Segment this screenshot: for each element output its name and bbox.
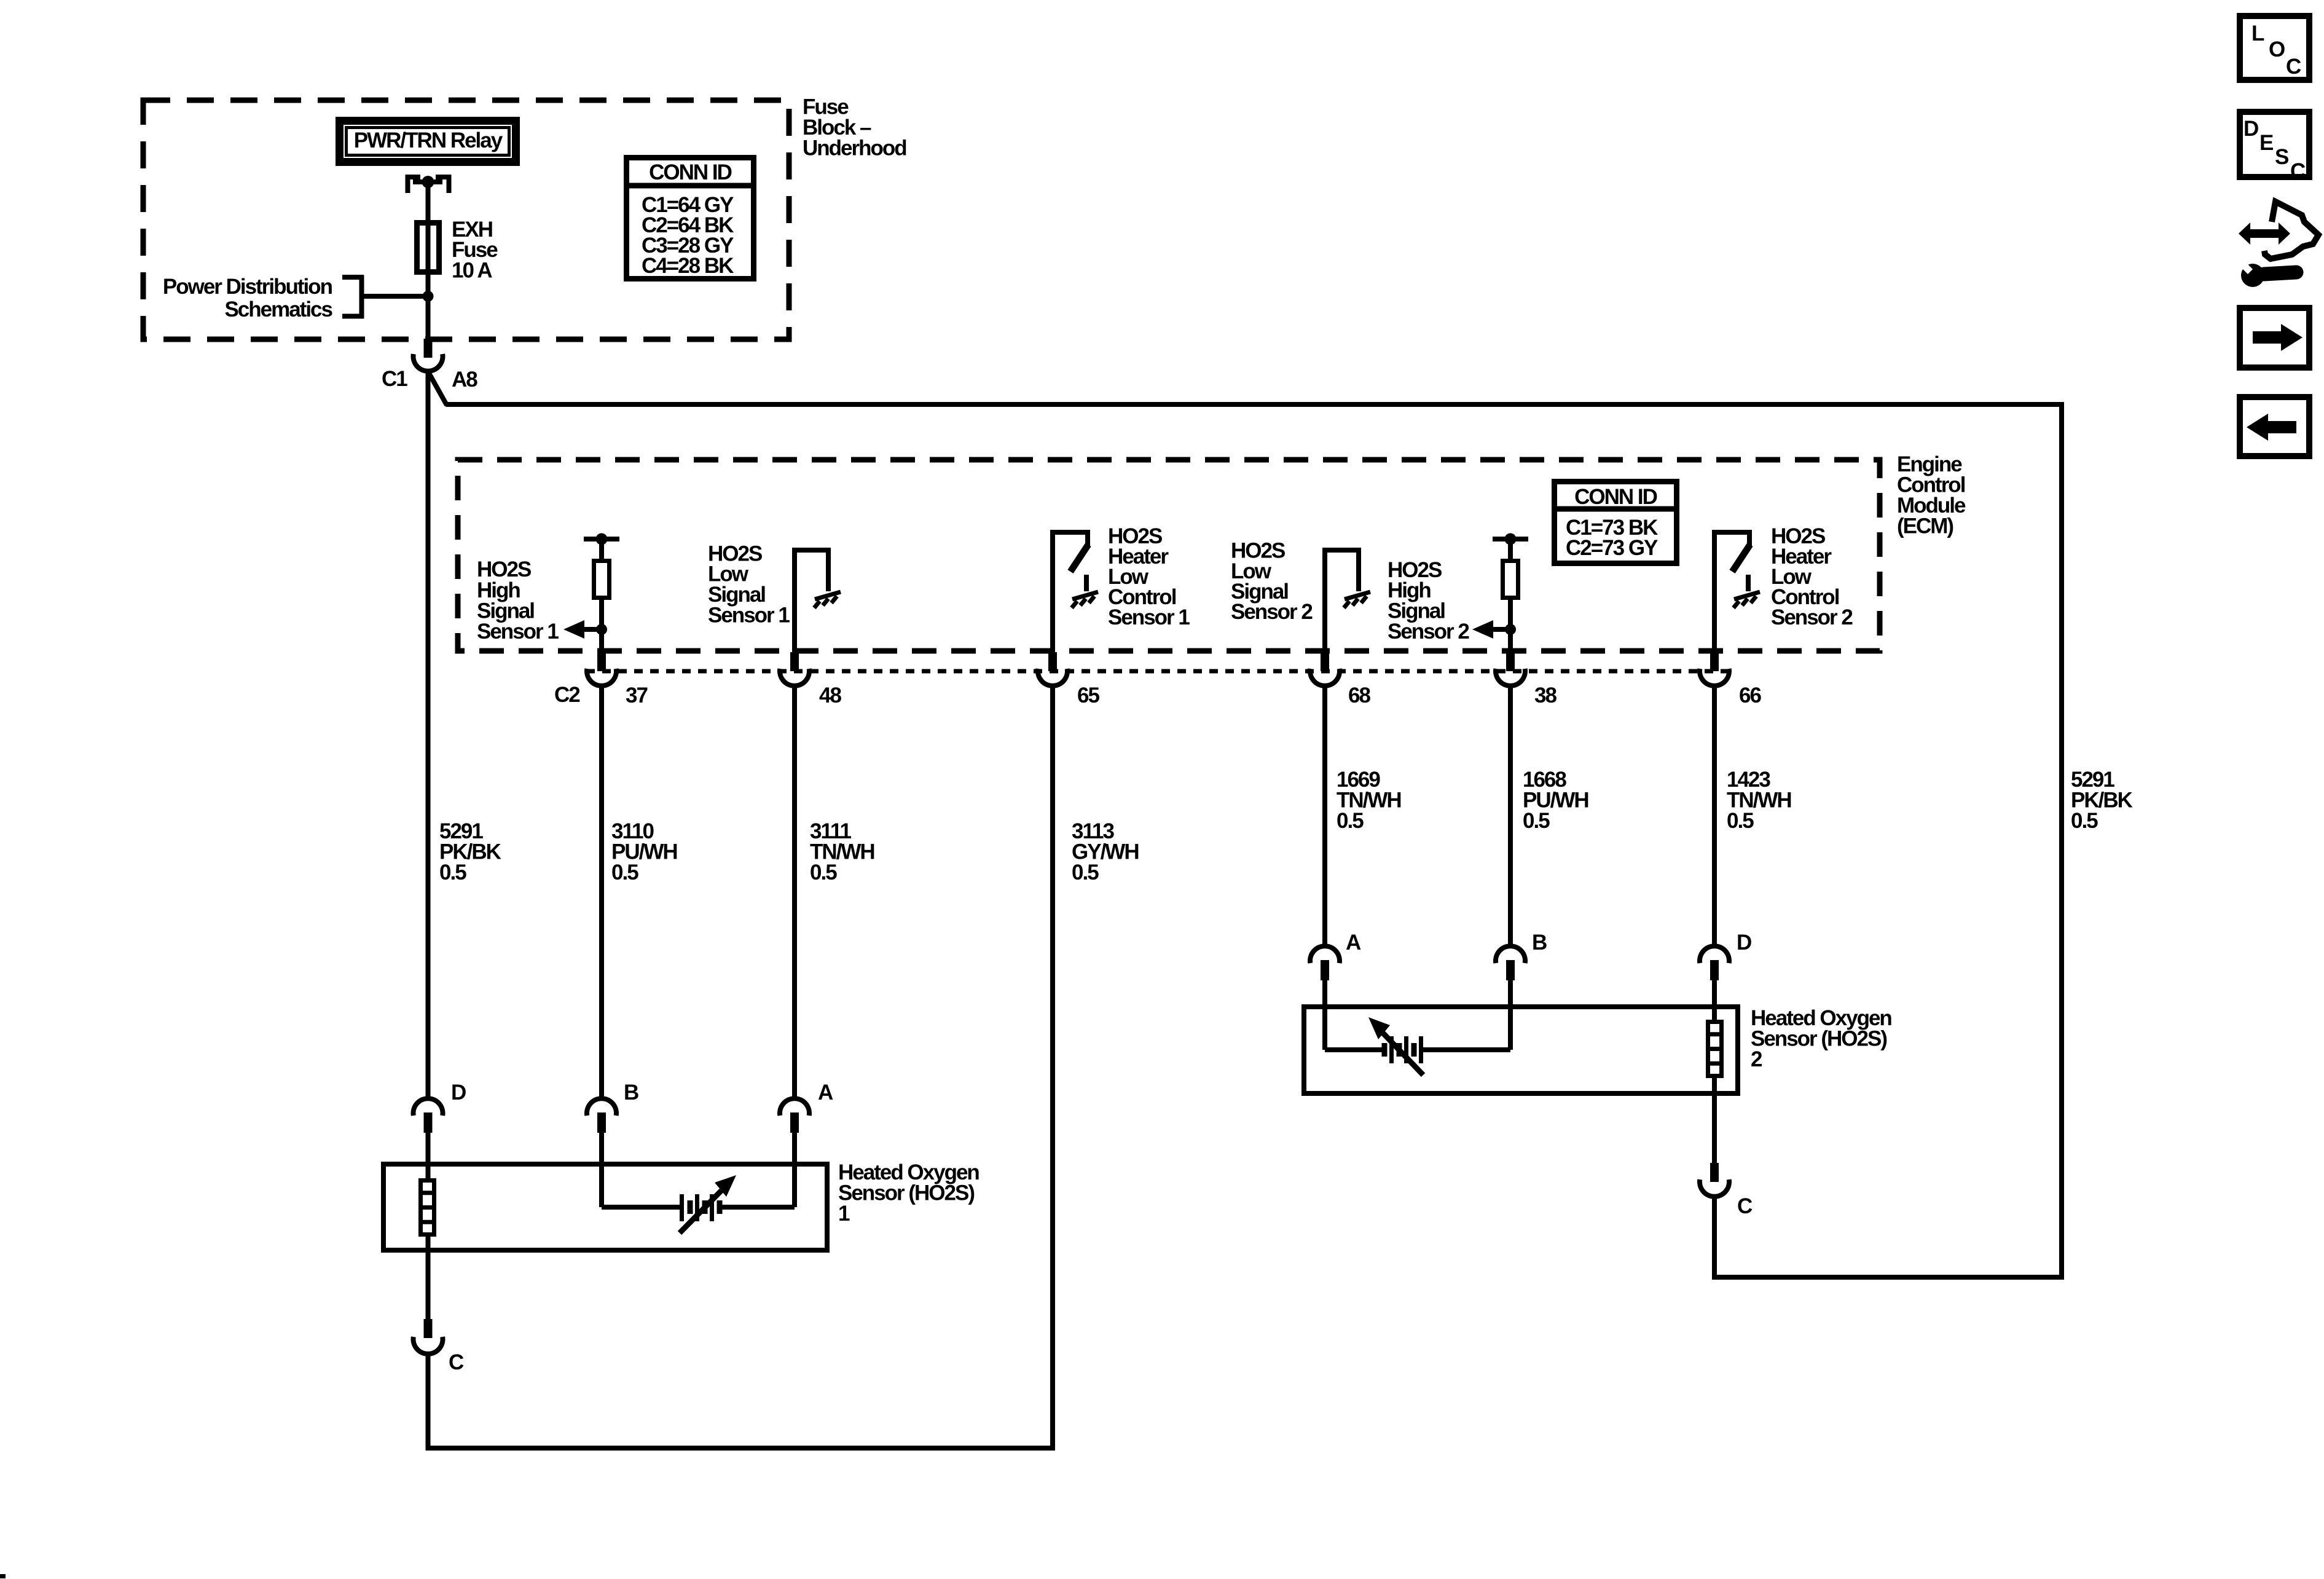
svg-text:0.5: 0.5 <box>1523 809 1550 833</box>
ECM internal: ground leg for pin 68 <box>1322 548 1361 652</box>
sidebar icon: back arrow box <box>2240 397 2309 456</box>
svg-text:D: D <box>2244 117 2258 141</box>
sensing cell: variable battery (HO2S2) <box>1325 1017 1510 1075</box>
connector pin B (HO2S2) <box>1496 931 1547 980</box>
connector pin D (HO2S1) <box>414 1081 466 1133</box>
svg-text:C2: C2 <box>554 683 580 707</box>
CONN ID table (fuse block) <box>624 158 756 279</box>
svg-text:48: 48 <box>819 683 841 707</box>
svg-text:0.5: 0.5 <box>1072 860 1099 884</box>
HO2S1 box: Heated Oxygen Sensor 1 <box>383 1164 827 1250</box>
svg-text:C2=73 GY: C2=73 GY <box>1566 536 1658 560</box>
svg-text:65: 65 <box>1077 683 1099 707</box>
svg-text:38: 38 <box>1534 683 1557 707</box>
chassis ground (pin 68 leg) <box>1344 592 1370 608</box>
label HO2S Low Signal Sensor 2 <box>1231 539 1313 624</box>
wire: HO2S2 heater to pin C <box>1712 1078 1717 1163</box>
connector pin C (HO2S1) <box>414 1319 464 1374</box>
label Heated Oxygen Sensor (HO2S) 1 <box>838 1160 979 1226</box>
svg-text:Underhood: Underhood <box>803 136 906 160</box>
sidebar icon LOC box <box>2240 16 2309 80</box>
sidebar icon DESC box <box>2240 112 2309 183</box>
svg-text:CONN ID: CONN ID <box>649 160 732 184</box>
label HO2S High Signal Sensor 1 <box>477 557 559 644</box>
svg-text:0.5: 0.5 <box>2071 809 2098 833</box>
svg-text:S: S <box>2275 145 2288 169</box>
svg-text:A: A <box>818 1081 833 1105</box>
svg-text:A8: A8 <box>452 368 477 392</box>
fuse F: EXH Fuse 10 A <box>417 223 439 272</box>
ECM connector row C2 dotted line <box>586 669 1728 674</box>
relay contact symbol <box>406 175 452 193</box>
wire: bottom right horizontal to HO2S 2 pin C <box>1714 1275 2064 1280</box>
wire: HO2S2 C down to bottom right run <box>1712 1196 1717 1280</box>
wires: HO2S1 pin stubs into box <box>426 1133 431 1178</box>
svg-text:Schematics: Schematics <box>224 297 332 321</box>
wires: HO2S2 pin stubs into box <box>1322 980 1327 1050</box>
svg-text:D: D <box>451 1081 466 1105</box>
chassis ground (pin 66 driver) <box>1733 592 1760 608</box>
ECM internal: driver switch to ground for pin 65 <box>1050 530 1090 652</box>
wire: right vertical feed (5291 PK/BK) <box>2059 402 2064 1280</box>
connector pin 68 <box>1310 652 1340 686</box>
svg-text:Sensor (HO2S): Sensor (HO2S) <box>838 1181 974 1205</box>
page speck bottom left <box>0 1574 6 1578</box>
svg-text:1: 1 <box>838 1202 850 1226</box>
HO2S2 box: Heated Oxygen Sensor 2 <box>1304 1007 1738 1093</box>
wire: A8 diagonal to top horizontal run <box>429 373 447 405</box>
wrench <box>2264 272 2296 274</box>
connector pin A (HO2S2) <box>1310 931 1361 980</box>
chassis ground (pin 65 driver) <box>1072 592 1098 608</box>
wire: top horizontal feed to right side <box>446 402 2062 407</box>
label Power Distribution Schematics with bracket <box>163 275 430 321</box>
double arrow <box>2239 222 2290 245</box>
svg-text:0.5: 0.5 <box>1727 809 1754 833</box>
svg-text:C: C <box>449 1350 464 1374</box>
svg-text:A: A <box>1346 931 1361 955</box>
svg-text:(ECM): (ECM) <box>1897 514 1953 538</box>
connector pin C (HO2S2) <box>1700 1163 1753 1218</box>
sensing cell: variable battery (HO2S1) <box>602 1175 795 1233</box>
ECM internal: driver switch to ground for pin 66 <box>1712 530 1752 652</box>
connector pin D (HO2S2) <box>1700 931 1751 980</box>
svg-text:37: 37 <box>626 683 647 707</box>
ECM internal: pull-up rail + resistor + signal arrow for pin 37 <box>563 534 619 653</box>
wire 1668 PU/WH (pin 38 to HO2S2 B) <box>1508 686 1513 947</box>
wire: HO2S1 heater to pin C <box>426 1237 431 1319</box>
schematic outline <box>2264 202 2318 259</box>
connector pin 37 (ECM C2) <box>587 652 616 686</box>
svg-text:E: E <box>2259 131 2273 155</box>
label wire 5291 PK/BK 0.5 (right) <box>2071 768 2133 833</box>
wire 1423 TN/WH (pin 66 to HO2S2 D) <box>1712 686 1717 947</box>
wire 1669 TN/WH (pin 68 to HO2S2 A) <box>1322 686 1327 947</box>
label HO2S Heater Low Control Sensor 2 <box>1771 524 1853 629</box>
svg-text:0.5: 0.5 <box>611 860 638 884</box>
svg-text:66: 66 <box>1739 683 1761 707</box>
sidebar icon: schematic navigation (double arrow, outline, wrench) <box>2236 202 2318 287</box>
fuse block dashed box: Fuse Block - Underhood <box>143 100 789 339</box>
wire: bottom left horizontal run <box>426 1446 1056 1451</box>
svg-text:Power Distribution: Power Distribution <box>163 275 332 299</box>
svg-text:0.5: 0.5 <box>439 860 466 884</box>
svg-text:Sensor 2: Sensor 2 <box>1231 600 1313 624</box>
svg-text:C: C <box>2286 55 2301 79</box>
svg-text:Sensor (HO2S): Sensor (HO2S) <box>1751 1027 1886 1051</box>
svg-text:D: D <box>1737 931 1751 955</box>
ECM internal: pull-up rail + resistor + signal arrow for pin 38 <box>1472 534 1528 653</box>
chassis ground (pin 48 leg) <box>814 592 841 608</box>
wire: relay to fuse to junction <box>426 182 431 339</box>
svg-text:Sensor 1: Sensor 1 <box>477 620 559 644</box>
svg-text:2: 2 <box>1751 1047 1762 1071</box>
svg-text:C: C <box>1737 1194 1753 1218</box>
junction dot at fuse output <box>423 291 434 302</box>
wire 3113 GY/WH (pin 65 to HO2S1 C via bottom run) <box>1050 686 1055 1451</box>
svg-text:Sensor 2: Sensor 2 <box>1771 605 1853 629</box>
label HO2S High Signal Sensor 2 <box>1388 558 1469 644</box>
svg-text:10 A: 10 A <box>452 259 492 283</box>
svg-text:C1: C1 <box>382 367 407 391</box>
wire: HO2S1 C down to bottom run <box>426 1352 431 1451</box>
connector pin 38 <box>1496 652 1525 686</box>
ECM internal: ground leg for pin 48 <box>792 548 831 652</box>
wire: main feed down left side (5291 PK/BK) <box>426 372 431 1099</box>
ECM dashed box: Engine Control Module <box>458 460 1880 651</box>
connector pin 48 <box>780 652 809 686</box>
svg-text:Sensor 2: Sensor 2 <box>1388 620 1469 644</box>
svg-text:0.5: 0.5 <box>810 860 837 884</box>
label HO2S Heater Low Control Sensor 1 <box>1108 524 1190 629</box>
connector pin A (HO2S1) <box>780 1081 833 1133</box>
connector pin B (HO2S1) <box>587 1081 638 1133</box>
svg-text:Sensor 1: Sensor 1 <box>1108 605 1190 629</box>
svg-text:Sensor 1: Sensor 1 <box>708 604 790 628</box>
wire 3111 TN/WH (pin 48 to HO2S1 A) <box>792 686 797 1099</box>
svg-text:CONN ID: CONN ID <box>1574 485 1657 509</box>
label Engine Control Module (ECM) <box>1897 452 1966 538</box>
svg-text:O: O <box>2269 37 2285 61</box>
heater element (HO2S2) <box>1708 1022 1722 1076</box>
svg-text:68: 68 <box>1348 683 1370 707</box>
CONN ID table (ECM) <box>1552 482 1679 564</box>
svg-text:PWR/TRN Relay: PWR/TRN Relay <box>354 128 503 152</box>
label HO2S Low Signal Sensor 1 <box>708 542 790 628</box>
connector pin 65 <box>1038 652 1067 686</box>
sidebar icon: next arrow box <box>2240 308 2309 368</box>
relay K: PWR/TRN Relay name box (double border) <box>336 117 520 166</box>
svg-text:0.5: 0.5 <box>1337 809 1364 833</box>
heater element (HO2S1) <box>420 1181 434 1235</box>
svg-text:B: B <box>1532 931 1547 955</box>
label EXH Fuse 10 A <box>452 218 498 283</box>
connector C1 pin A8 (fuse block output) <box>382 339 477 392</box>
label wire 5291 PK/BK 0.5 (left) <box>439 819 501 884</box>
label Heated Oxygen Sensor (HO2S) 2 <box>1751 1006 1891 1071</box>
svg-text:C: C <box>2290 159 2306 183</box>
wire 3110 PU/WH (pin 37 to HO2S1 B) <box>599 686 604 1099</box>
connector pin 66 <box>1700 652 1729 686</box>
label Fuse Block - Underhood <box>803 95 906 160</box>
svg-text:L: L <box>2251 22 2264 45</box>
svg-text:C4=28 BK: C4=28 BK <box>642 254 734 278</box>
svg-text:B: B <box>624 1081 638 1105</box>
